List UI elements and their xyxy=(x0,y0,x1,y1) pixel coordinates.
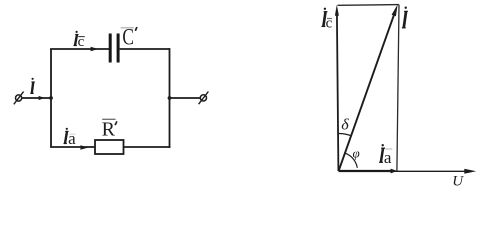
resistor R' xyxy=(95,140,124,154)
node left junction xyxy=(49,96,53,100)
phasor Ic xyxy=(335,5,339,171)
node right junction xyxy=(168,96,172,100)
construction line right xyxy=(397,5,399,171)
svg-text:φ: φ xyxy=(352,145,359,160)
angle phi arc xyxy=(345,153,357,168)
phasor Ia xyxy=(339,169,398,174)
label current Ia xyxy=(64,128,77,148)
label phasor Ic xyxy=(322,8,333,32)
capacitor C' xyxy=(110,34,118,63)
wire bottom right xyxy=(124,146,171,148)
wire left branch xyxy=(50,49,52,147)
wire bottom left xyxy=(50,146,95,148)
label R' xyxy=(102,118,117,140)
current arrow I xyxy=(39,96,45,100)
angle delta arc xyxy=(338,133,351,135)
current arrow Ia xyxy=(80,145,88,150)
label current I xyxy=(30,78,35,94)
terminal left xyxy=(14,92,24,105)
wire input xyxy=(22,97,51,99)
construction line top xyxy=(338,4,399,7)
phasor I xyxy=(339,4,398,171)
wire top left xyxy=(50,48,109,50)
svg-text:a: a xyxy=(384,148,392,167)
svg-text:δ: δ xyxy=(341,116,349,133)
current arrow Ic xyxy=(91,47,99,51)
label phasor I xyxy=(402,7,408,28)
wire top right xyxy=(120,48,170,50)
axis U xyxy=(339,169,477,174)
wire right branch xyxy=(169,48,171,148)
svg-text:C: C xyxy=(122,25,134,50)
svg-text:a: a xyxy=(68,129,76,148)
svg-text:U: U xyxy=(452,174,464,190)
label current Ic xyxy=(74,31,85,50)
label C' xyxy=(121,25,137,50)
wire output xyxy=(170,97,201,99)
terminal right xyxy=(199,92,209,105)
label phasor Ia xyxy=(379,144,392,167)
svg-text:R: R xyxy=(102,118,116,140)
